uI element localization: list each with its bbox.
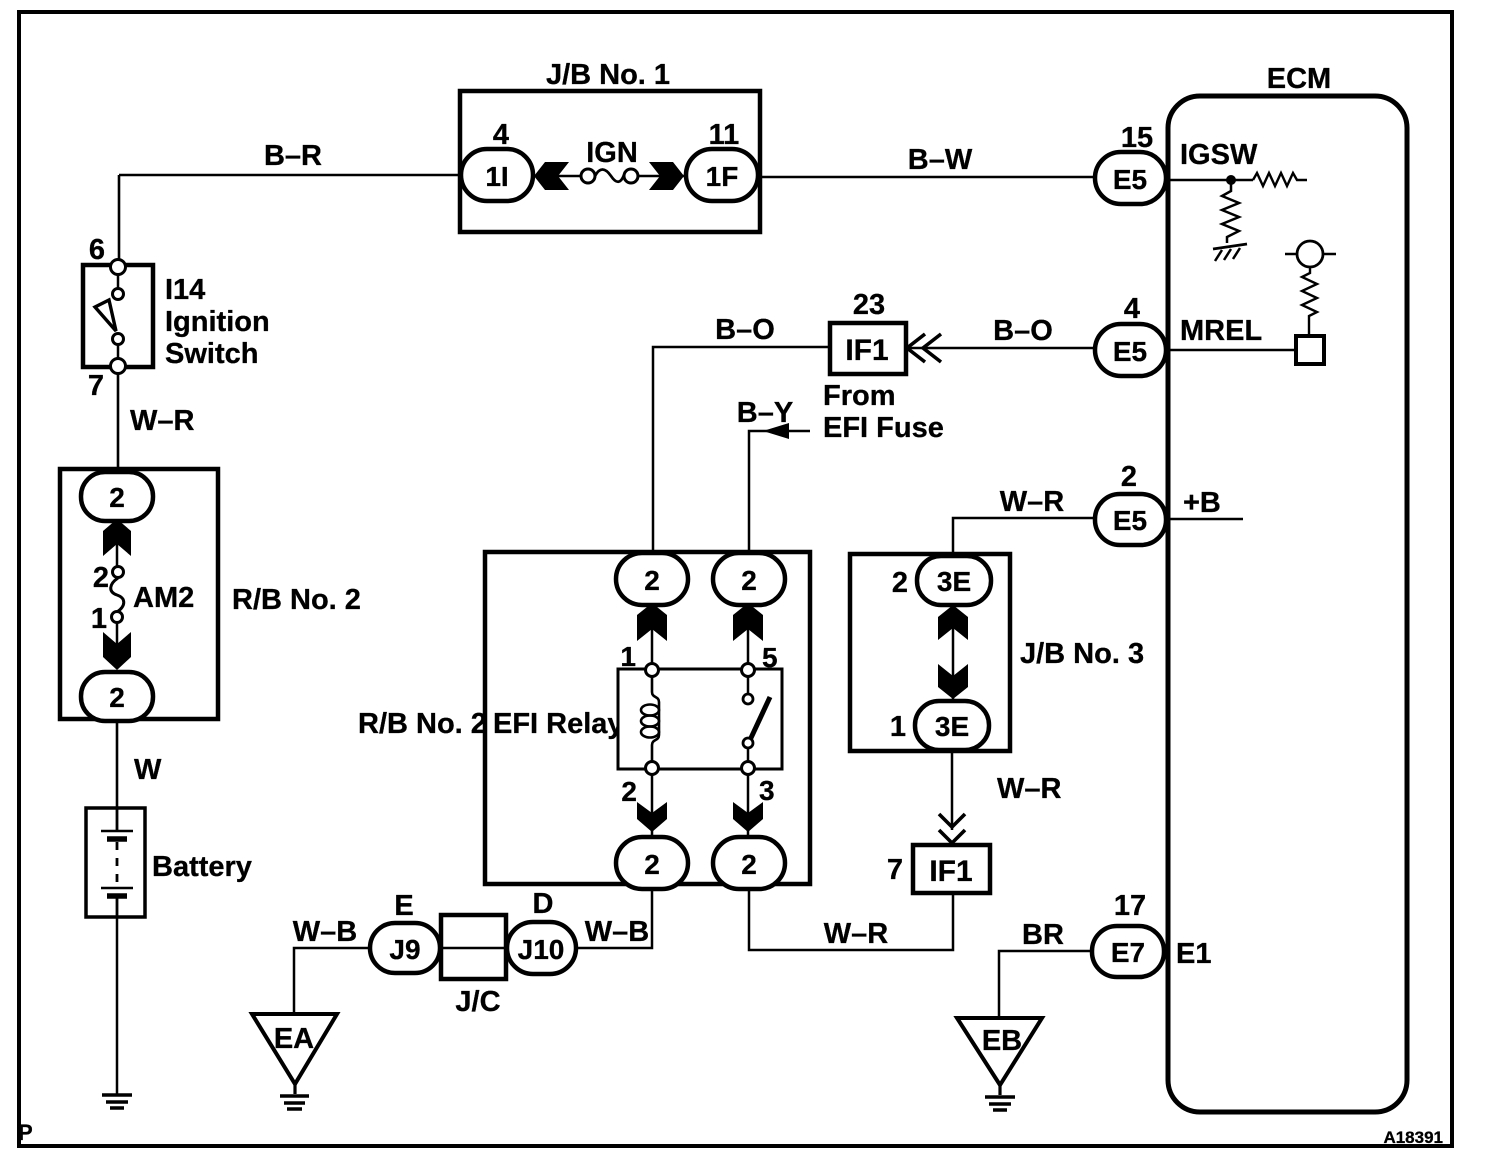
arrow up (3E) xyxy=(938,605,968,640)
svg-text:B–Y: B–Y xyxy=(737,397,793,429)
svg-text:1: 1 xyxy=(91,603,107,635)
svg-text:4: 4 xyxy=(1124,293,1140,325)
wire W-B relay to J10 xyxy=(576,889,652,948)
svg-text:IF1: IF1 xyxy=(845,334,888,367)
ground battery earth marks xyxy=(102,1095,132,1108)
connector oval 2 bottom xyxy=(81,672,153,721)
svg-text:D: D xyxy=(533,888,554,920)
svg-text:W: W xyxy=(134,754,162,786)
wire B-Y into relay xyxy=(749,431,810,556)
wire pin3 down xyxy=(747,775,750,837)
svg-text:3E: 3E xyxy=(935,711,969,742)
wire switch-side vertical xyxy=(747,605,750,670)
svg-text:17: 17 xyxy=(1114,890,1146,922)
ECM body xyxy=(1168,96,1407,1112)
svg-text:Battery: Battery xyxy=(152,851,252,883)
wire battery to ground xyxy=(116,917,119,1094)
svg-text:BR: BR xyxy=(1022,919,1064,951)
connector oval E7 xyxy=(1092,926,1164,977)
svg-text:AM2: AM2 xyxy=(133,582,194,614)
svg-text:From: From xyxy=(823,380,896,412)
wire MREL internal xyxy=(1166,349,1296,352)
wire W to battery xyxy=(116,721,119,808)
wire B-O from IF1 to relay xyxy=(653,347,830,556)
wire between 3E ovals xyxy=(952,605,955,701)
svg-text:2: 2 xyxy=(621,776,637,807)
svg-text:R/B No. 2: R/B No. 2 xyxy=(358,708,487,740)
svg-text:W–R: W–R xyxy=(824,918,889,950)
junction block J/B No.3 box xyxy=(850,554,1010,751)
arrow up to oval 2 xyxy=(103,519,131,556)
switch lever xyxy=(95,300,116,331)
svg-text:R/B No. 2: R/B No. 2 xyxy=(232,584,361,616)
svg-text:E5: E5 xyxy=(1113,505,1147,536)
svg-text:IGSW: IGSW xyxy=(1180,139,1258,171)
wire contact to pin7 xyxy=(117,345,120,360)
arrow down (3E) xyxy=(938,664,968,699)
wire W-R pin7 to AM2 xyxy=(117,373,120,471)
wire W-R from E5 to J/B No.3 xyxy=(953,518,1095,556)
MREL driver square xyxy=(1296,336,1324,364)
svg-text:11: 11 xyxy=(709,119,740,151)
wire W-R down to IF1(7) xyxy=(951,750,954,830)
svg-text:IGN: IGN xyxy=(586,137,638,169)
relay coil xyxy=(652,676,659,762)
battery plate short bottom xyxy=(107,893,127,899)
wire from ignition switch up xyxy=(118,175,121,261)
connector oval 2 (bottom switch) xyxy=(713,837,785,889)
arrow down (coil side) xyxy=(637,802,667,832)
svg-text:MREL: MREL xyxy=(1180,315,1262,347)
svg-text:Ignition: Ignition xyxy=(165,306,270,338)
resistor vertical (MREL) xyxy=(1302,267,1317,336)
wire B-O from E5 to IF1 xyxy=(906,347,1095,350)
wire IGSW internal xyxy=(1166,179,1253,182)
arrow up (coil side) xyxy=(637,603,667,641)
svg-text:1F: 1F xyxy=(706,161,739,192)
ground EA triangle xyxy=(252,1014,337,1084)
battery plate long top xyxy=(101,830,133,833)
wire B-R horizontal xyxy=(119,174,465,177)
svg-text:B–O: B–O xyxy=(715,314,775,346)
svg-text:W–B: W–B xyxy=(293,916,357,948)
fuse AM2 body xyxy=(111,578,124,612)
switch contact lower xyxy=(113,334,124,345)
ground EB earth marks xyxy=(998,1085,1001,1095)
svg-text:IF1: IF1 xyxy=(929,855,972,888)
wire BR from E7 to EB ground xyxy=(999,951,1092,1018)
arrowhead B-Y xyxy=(763,423,789,439)
svg-text:3: 3 xyxy=(759,775,775,806)
arrow down (switch side) xyxy=(733,802,763,832)
svg-text:A18391: A18391 xyxy=(1383,1128,1443,1147)
svg-text:2: 2 xyxy=(741,565,757,596)
connector oval 2 top xyxy=(81,472,153,521)
svg-text:7: 7 xyxy=(88,370,104,402)
wire W-R relay to IF1(7) xyxy=(749,889,953,950)
svg-text:J10: J10 xyxy=(518,934,565,965)
svg-text:J/B No. 3: J/B No. 3 xyxy=(1020,638,1144,670)
svg-text:J/C: J/C xyxy=(455,986,500,1018)
svg-text:E7: E7 xyxy=(1111,937,1145,968)
svg-text:2: 2 xyxy=(1121,461,1137,493)
wire coil-side vertical xyxy=(651,605,654,670)
svg-text:2: 2 xyxy=(741,849,757,880)
wire inside J/B No.1 xyxy=(533,175,687,178)
resistor horizontal (IGSW pullup) xyxy=(1253,173,1307,186)
connector oval E5 (IGSW) xyxy=(1095,152,1166,204)
svg-text:P: P xyxy=(18,1120,33,1145)
wire +B stub xyxy=(1166,518,1243,521)
chevrons into IF1 xyxy=(907,334,941,362)
wire through J/C xyxy=(440,947,507,950)
connector oval E5 (MREL) xyxy=(1095,324,1166,376)
relay pin 2 terminal xyxy=(646,762,659,775)
svg-text:1: 1 xyxy=(620,641,636,672)
connector oval E5 (+B) xyxy=(1095,494,1166,545)
svg-text:Switch: Switch xyxy=(165,338,258,370)
svg-text:B–O: B–O xyxy=(993,315,1053,347)
svg-text:EB: EB xyxy=(982,1025,1022,1057)
connector oval 2 (bottom coil) xyxy=(616,837,688,889)
connector oval 3E top xyxy=(917,556,991,605)
fuse box IF1 (7) xyxy=(913,845,990,893)
wire pin2 down xyxy=(651,775,654,837)
svg-text:1I: 1I xyxy=(485,161,508,192)
svg-text:W–R: W–R xyxy=(1000,486,1065,518)
svg-text:3E: 3E xyxy=(937,566,971,597)
ground EB triangle xyxy=(957,1018,1042,1085)
battery dashed center xyxy=(116,842,119,884)
internal ground marks xyxy=(1213,244,1247,249)
connector oval 1I xyxy=(461,149,533,201)
ground EA earth marks xyxy=(293,1084,296,1094)
svg-text:15: 15 xyxy=(1121,122,1153,154)
battery internal lead bottom xyxy=(116,898,119,917)
ignition switch I14 box xyxy=(83,265,153,367)
battery plate short top xyxy=(107,836,127,842)
fuse AM2 lower terminal xyxy=(112,612,123,623)
svg-text:2: 2 xyxy=(644,565,660,596)
chevrons into IF1(7) xyxy=(939,814,965,843)
svg-text:E5: E5 xyxy=(1113,164,1147,195)
pin 7 terminal xyxy=(111,359,126,374)
relay inner box xyxy=(618,669,782,769)
svg-text:W–R: W–R xyxy=(130,405,195,437)
svg-text:7: 7 xyxy=(887,854,903,886)
svg-text:6: 6 xyxy=(89,234,105,266)
arrow toward 1F xyxy=(649,162,684,190)
svg-text:EFI Relay: EFI Relay xyxy=(493,708,624,740)
connector oval 2 (relay switch top) xyxy=(713,553,785,605)
svg-text:1: 1 xyxy=(890,711,906,743)
svg-text:W–R: W–R xyxy=(997,773,1062,805)
switch contact upper xyxy=(113,289,124,300)
relay pin 3 terminal xyxy=(742,762,755,775)
pin 6 terminal xyxy=(111,260,126,275)
svg-text:I14: I14 xyxy=(165,274,205,306)
battery plate long bottom xyxy=(101,887,133,890)
svg-text:2: 2 xyxy=(644,849,660,880)
connector oval J9 xyxy=(370,923,440,973)
svg-text:J/B No. 1: J/B No. 1 xyxy=(546,59,670,91)
svg-text:EFI Fuse: EFI Fuse xyxy=(823,412,944,444)
arrow up (switch side) xyxy=(733,603,763,641)
svg-text:B–W: B–W xyxy=(908,144,973,176)
svg-text:+B: +B xyxy=(1183,487,1221,519)
svg-text:EA: EA xyxy=(274,1023,314,1055)
MREL driver circle xyxy=(1297,241,1323,267)
svg-text:J9: J9 xyxy=(389,934,420,965)
fuse box IF1 (23) xyxy=(830,323,906,374)
svg-text:23: 23 xyxy=(853,289,885,321)
junction block J/B No.1 box xyxy=(460,91,760,232)
junction connector J/C box xyxy=(441,915,506,979)
battery internal lead top xyxy=(116,808,119,830)
wire inside AM2 xyxy=(116,521,119,646)
wire W-B J9 to EA xyxy=(294,948,370,1014)
connector oval 3E bottom xyxy=(915,701,989,750)
relay switch contact lower xyxy=(743,738,753,748)
svg-text:W–B: W–B xyxy=(585,916,649,948)
relay pin 1 terminal xyxy=(646,664,659,677)
arrow down to bottom oval xyxy=(103,632,131,670)
svg-text:E1: E1 xyxy=(1176,938,1211,970)
svg-text:4: 4 xyxy=(493,119,509,151)
relay pin 5 terminal xyxy=(742,664,755,677)
relay switch lever xyxy=(750,697,770,740)
svg-text:ECM: ECM xyxy=(1267,63,1331,95)
svg-text:2: 2 xyxy=(109,682,125,713)
svg-text:2: 2 xyxy=(93,562,109,594)
svg-text:E: E xyxy=(394,890,413,922)
svg-text:B–R: B–R xyxy=(264,140,322,172)
wire pin6 to contact xyxy=(117,274,120,290)
connector oval J10 xyxy=(507,922,576,974)
relay block R/B No.2 (AM2) box xyxy=(60,469,218,719)
connector oval 2 (relay coil top) xyxy=(616,553,688,605)
resistor vertical to ground xyxy=(1222,184,1239,243)
svg-text:2: 2 xyxy=(109,482,125,513)
relay block R/B No.2 (EFI relay) box xyxy=(485,552,810,884)
battery box xyxy=(86,808,145,917)
svg-text:2: 2 xyxy=(892,567,908,599)
wire B-W horizontal xyxy=(757,176,1097,179)
relay switch contact upper xyxy=(747,676,750,694)
connector oval 1F xyxy=(686,149,758,201)
svg-text:E5: E5 xyxy=(1113,336,1147,367)
node junction dot xyxy=(1226,175,1236,185)
arrow toward 1I xyxy=(534,162,569,190)
fuse AM2 upper terminal xyxy=(113,567,124,578)
